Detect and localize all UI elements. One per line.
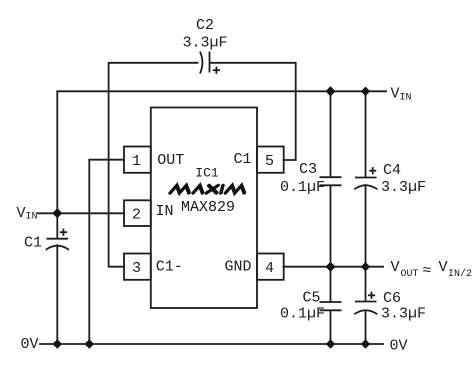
svg-text:V: V xyxy=(17,205,26,222)
svg-text:OUT: OUT xyxy=(157,152,184,169)
svg-text:2: 2 xyxy=(132,206,141,223)
wire VOUT rail from pin 4 xyxy=(284,266,384,268)
svg-text:MAX829: MAX829 xyxy=(181,199,235,216)
svg-text:4: 4 xyxy=(265,260,274,277)
pin 3 xyxy=(124,254,151,280)
svg-text:IN: IN xyxy=(400,92,412,103)
svg-text:IN/2: IN/2 xyxy=(448,268,472,280)
svg-text:C6: C6 xyxy=(383,290,401,307)
pin 5 xyxy=(257,147,284,173)
wire from pin 3 (C1-) up to C2 left plate xyxy=(109,63,198,267)
svg-text:3.3µF: 3.3µF xyxy=(381,306,426,323)
svg-text:V: V xyxy=(439,259,448,276)
node 0V rail / C5 xyxy=(326,339,335,348)
wire left VIN vertical lower segment through C1 to 0V xyxy=(56,245,58,344)
wire C3/C5 column lower segment xyxy=(330,311,332,344)
node VIN rail / C3 xyxy=(326,86,336,96)
wire 0V rail xyxy=(40,343,383,345)
svg-text:C1: C1 xyxy=(24,235,42,252)
svg-text:C5: C5 xyxy=(303,289,321,306)
svg-text:IC1: IC1 xyxy=(195,166,219,181)
wire left VIN vertical upper segment xyxy=(56,91,58,237)
node VIN input junction xyxy=(52,208,62,218)
svg-text:5: 5 xyxy=(265,153,274,170)
node 0V rail / C6 xyxy=(361,339,370,348)
wire C4/C6 column upper segment xyxy=(365,91,367,176)
wire from pin 1 (OUT) down to 0V rail xyxy=(89,160,124,344)
svg-text:1: 1 xyxy=(132,153,141,170)
svg-text:0.1µF: 0.1µF xyxy=(280,179,325,196)
capacitor C6 3.3uF (polarized) xyxy=(354,290,426,323)
node VOUT rail / C4-C6 xyxy=(361,262,370,271)
svg-text:0.1µF: 0.1µF xyxy=(280,306,325,323)
svg-text:0V: 0V xyxy=(21,336,39,353)
wire C4/C6 column lower segment xyxy=(365,311,367,345)
pin 1 xyxy=(124,147,151,173)
node VIN rail / C4 xyxy=(361,87,370,96)
wire C3/C5 column middle segment xyxy=(330,186,332,301)
wire C4/C6 column middle segment xyxy=(365,185,367,301)
net label VOUT = VIN/2 xyxy=(391,259,473,280)
pin 4 xyxy=(257,254,284,280)
node 0V at OUT branch xyxy=(85,339,94,348)
pin 2 xyxy=(124,200,151,226)
wire from VIN label to pin 2 (IN) xyxy=(38,212,124,214)
net label VIN (left input) xyxy=(17,205,38,223)
svg-text:IN: IN xyxy=(26,212,38,223)
svg-text:C2: C2 xyxy=(196,17,214,34)
capacitor C3 0.1uF xyxy=(280,161,342,196)
capacitor C2 3.3uF (polarized, horizontal) xyxy=(182,17,227,74)
capacitor C4 3.3uF (polarized) xyxy=(354,162,426,196)
svg-text:C1-: C1- xyxy=(156,258,183,275)
capacitor C5 0.1uF xyxy=(280,289,342,322)
svg-text:IN: IN xyxy=(156,203,174,220)
svg-text:OUT: OUT xyxy=(401,269,419,280)
MAXIM logo xyxy=(170,186,246,193)
svg-text:C1: C1 xyxy=(233,151,251,168)
svg-text:0V: 0V xyxy=(390,337,408,354)
wire VIN top rail xyxy=(57,90,386,92)
net label VIN (top right) xyxy=(391,85,412,103)
svg-text:3.3µF: 3.3µF xyxy=(381,179,426,196)
IC U1 body MAX829 xyxy=(151,108,257,309)
capacitor C1 (polarized, on VIN input) xyxy=(24,229,69,252)
wire from pin 5 (C1+) up to C2 right plate xyxy=(211,63,296,160)
svg-text:3: 3 xyxy=(132,260,141,277)
node VOUT rail / C3-C5 xyxy=(326,262,336,272)
svg-text:3.3µF: 3.3µF xyxy=(182,35,227,52)
svg-text:V: V xyxy=(391,259,400,276)
svg-text:≈: ≈ xyxy=(423,263,432,280)
svg-text:C3: C3 xyxy=(299,161,317,178)
svg-text:V: V xyxy=(391,85,400,102)
wire C3/C5 column upper segment xyxy=(330,91,332,176)
node 0V at C1 xyxy=(53,339,62,348)
svg-text:C4: C4 xyxy=(383,162,401,179)
svg-text:GND: GND xyxy=(224,258,251,275)
